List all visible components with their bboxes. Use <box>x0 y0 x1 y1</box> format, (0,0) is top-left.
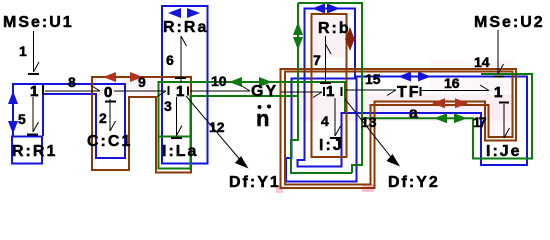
svg-text:8: 8 <box>68 74 76 90</box>
svg-text:I:La: I:La <box>162 143 198 160</box>
svg-text:1: 1 <box>19 43 27 59</box>
svg-text:2: 2 <box>99 110 107 126</box>
svg-text:a: a <box>409 105 420 122</box>
svg-text:TF: TF <box>397 84 421 101</box>
bond 8 causal stroke at 1 <box>42 85 44 95</box>
svg-text:R:Ra: R:Ra <box>163 19 208 36</box>
bond 6 wire <box>181 36 187 83</box>
svg-text:9: 9 <box>138 74 146 90</box>
bond 4 causal stroke <box>330 137 341 139</box>
loop brown B (C:C1 - I:La) wire <box>92 77 191 173</box>
bond 13 arrow wire <box>345 99 394 161</box>
loop blue H (R:Ra - I:La) wire <box>162 6 208 164</box>
bond 5 wire <box>33 97 39 132</box>
bond 10 wire <box>190 86 250 92</box>
bond 10 causal stroke at 1 <box>187 87 189 96</box>
bond 9 causal stroke at 1 <box>168 86 170 95</box>
svg-text:MSe:U2: MSe:U2 <box>474 14 545 31</box>
svg-text:15: 15 <box>365 71 381 87</box>
svg-text:16: 16 <box>444 75 460 91</box>
loop brown TF corridor wire <box>281 69 517 188</box>
svg-text:0: 0 <box>104 84 112 101</box>
bond 8 wire <box>45 86 100 92</box>
faint artifact washes <box>93 16 514 193</box>
bond 11 causal stroke <box>323 87 325 96</box>
svg-text:R:b: R:b <box>318 20 351 37</box>
loop green Rb (R:b - TF - I:Je) wire <box>291 3 532 173</box>
svg-text:5: 5 <box>18 111 26 127</box>
bond 11 wire <box>281 92 322 98</box>
svg-text:1: 1 <box>326 83 334 100</box>
svg-text:4: 4 <box>321 113 329 129</box>
loop brown D arrows <box>345 27 355 51</box>
bond 1 causal stroke <box>28 73 39 75</box>
loop brown B arrows <box>103 72 143 82</box>
loop brown D (R:b - I:J) wire <box>312 14 347 157</box>
svg-text:10: 10 <box>211 73 227 89</box>
svg-text:14: 14 <box>474 54 490 70</box>
svg-text:7: 7 <box>313 52 321 68</box>
svg-text:R:R1: R:R1 <box>12 143 57 160</box>
loop blue A (R:R1 - C:C1) wire <box>12 84 125 164</box>
svg-text:I:J: I:J <box>319 137 344 154</box>
bond 14 causal stroke <box>493 76 504 78</box>
loop blue U (middle bottom) wire <box>286 79 357 182</box>
bond 6 causal stroke <box>175 77 186 79</box>
loop green La (I:La - GY - I:J) wire <box>159 82 346 169</box>
bond 3 causal stroke <box>171 137 182 139</box>
svg-text:3: 3 <box>164 98 172 114</box>
bond 7 causal stroke <box>320 82 331 84</box>
svg-text:I:Je: I:Je <box>486 143 522 160</box>
svg-text:Df:Y2: Df:Y2 <box>388 174 440 191</box>
svg-text:6: 6 <box>166 52 174 68</box>
svg-text:1: 1 <box>30 83 38 100</box>
bond 3 wire <box>177 97 183 136</box>
loop blue E (R:b - I:Je) wire <box>298 9 528 167</box>
loop brown TF arrows <box>432 98 468 108</box>
loop blue A arrows <box>8 91 18 134</box>
svg-text:1: 1 <box>494 84 502 101</box>
svg-text:GY: GY <box>251 83 278 100</box>
svg-text:13: 13 <box>361 114 377 130</box>
bond 9 wire <box>114 91 166 97</box>
bond 15 wire <box>345 90 396 96</box>
svg-text:n: n <box>256 106 269 131</box>
loop green La arrows <box>229 77 272 87</box>
svg-text:1: 1 <box>176 83 184 100</box>
bond 17 wire <box>504 104 510 138</box>
svg-text:12: 12 <box>209 119 225 135</box>
bond 7 wire <box>326 36 332 82</box>
bond 1 wire <box>34 31 40 72</box>
loop green Rb arrows <box>293 22 467 123</box>
loop blue E arrows top <box>312 4 431 82</box>
bond 12 arrowhead <box>235 156 249 169</box>
svg-text:C:C1: C:C1 <box>87 133 132 150</box>
bond 5 causal stroke <box>27 134 38 136</box>
bond 13 arrowhead <box>387 154 401 167</box>
TF causal stroke <box>420 87 422 96</box>
bond 2 causal stroke <box>105 101 116 103</box>
bond 4 wire <box>335 98 341 136</box>
svg-text:Df:Y1: Df:Y1 <box>229 174 281 191</box>
junction stroke right of 1m <box>341 87 343 96</box>
loop blue H arrows <box>168 8 200 18</box>
bond 16 wire <box>421 85 489 91</box>
node R:R1 box <box>12 137 42 164</box>
svg-text:MSe:U1: MSe:U1 <box>3 14 74 31</box>
bond 12 arrow wire <box>186 96 242 162</box>
bond 17 causal stroke <box>499 102 509 104</box>
bond 2 wire <box>110 99 116 131</box>
bond 14 wire <box>498 30 504 74</box>
